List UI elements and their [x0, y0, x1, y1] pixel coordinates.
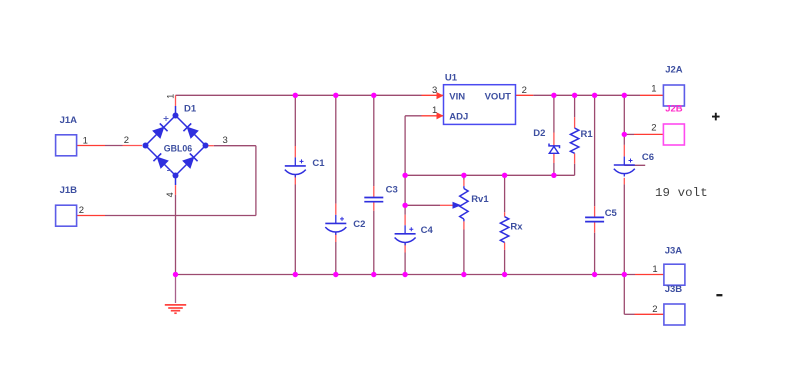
svg-text:3: 3	[223, 135, 228, 146]
svg-text:1: 1	[83, 135, 88, 146]
capacitor C6	[614, 152, 654, 177]
connector J1A	[56, 115, 78, 156]
capacitor C5	[585, 208, 617, 222]
zener diode D2	[533, 128, 559, 153]
regulator U1	[444, 73, 516, 125]
wire net VIN top bus	[176, 94, 444, 96]
wire J3B pin	[624, 275, 664, 315]
svg-text:U1: U1	[445, 73, 458, 84]
connector J2A	[663, 64, 684, 106]
capacitor C2	[325, 215, 365, 235]
svg-text:J1B: J1B	[60, 185, 78, 196]
junction ground bus left	[173, 272, 178, 277]
wire J1A to bridge pin2	[77, 145, 143, 147]
wire R1 branch	[574, 95, 576, 175]
svg-text:R1: R1	[581, 129, 594, 140]
wire bridge pin1 to top bus	[175, 95, 177, 106]
resistor R1	[570, 128, 593, 153]
capacitor C1	[285, 157, 325, 177]
svg-text:D1: D1	[184, 104, 197, 115]
junction VOUT bus R1	[572, 93, 577, 98]
pin number 4 of bridge rotated	[165, 192, 175, 197]
wire U1 ADJ net vertical and C4 branch	[405, 116, 443, 275]
wire D2 branch	[553, 95, 555, 175]
svg-text:1: 1	[166, 94, 176, 99]
junction top bus C2	[333, 93, 338, 98]
svg-text:2: 2	[124, 135, 129, 146]
junction VOUT bus C6	[622, 93, 627, 98]
junction ground bus C5	[592, 272, 597, 277]
svg-text:C5: C5	[605, 208, 618, 219]
wire J2B pin	[624, 133, 663, 135]
wire ground bottom bus	[176, 274, 664, 276]
svg-text:GBL06: GBL06	[164, 144, 192, 155]
connector J3A	[664, 245, 685, 285]
junction ADJ rail left	[402, 173, 407, 178]
svg-text:Rx: Rx	[510, 222, 523, 233]
19 volt annotation	[655, 186, 708, 200]
resistor Rx	[500, 217, 523, 243]
wire C1 branch	[294, 95, 296, 274]
svg-text:4: 4	[165, 192, 175, 197]
svg-text:C4: C4	[421, 225, 434, 236]
wire net VOUT bus	[516, 94, 664, 96]
svg-text:19 volt: 19 volt	[655, 186, 708, 200]
svg-text:C3: C3	[386, 184, 398, 195]
svg-text:J1A: J1A	[60, 115, 78, 126]
svg-text:Rv1: Rv1	[471, 194, 489, 205]
svg-text:2: 2	[651, 123, 656, 134]
pin number 2 of bridge	[124, 135, 129, 146]
junction VOUT bus C5	[592, 93, 597, 98]
junction ADJ rail Rv1	[461, 173, 466, 178]
svg-text:C6: C6	[642, 152, 654, 163]
svg-text:3: 3	[432, 85, 437, 96]
svg-text:ADJ: ADJ	[449, 112, 468, 123]
svg-text:J2B: J2B	[665, 104, 683, 115]
junction ground bus C4	[402, 272, 407, 277]
wire C2 branch	[335, 95, 337, 274]
pin number 1 of J2A	[651, 84, 656, 95]
wire ground stub	[175, 275, 177, 304]
pin number 2 of J3B	[652, 304, 657, 315]
junction ground bus C1	[293, 272, 298, 277]
wire C6 plate stub	[624, 164, 645, 166]
connector J3B	[664, 284, 685, 325]
svg-text:D2: D2	[533, 128, 545, 139]
junction ground bus Rx	[502, 272, 507, 277]
wire bridge pin4 to ground bus	[175, 185, 177, 274]
U1 ADJ input arrow pin 1	[432, 105, 443, 120]
svg-text:VOUT: VOUT	[485, 91, 512, 102]
pin number 1 of J1A	[83, 135, 88, 146]
svg-text:1: 1	[432, 105, 437, 116]
svg-text:VIN: VIN	[449, 91, 465, 102]
junction ground bus Rv1	[461, 272, 466, 277]
svg-text:2: 2	[522, 85, 527, 96]
bridge rectifier D1 GBL06	[143, 104, 209, 186]
svg-text:C2: C2	[353, 219, 365, 230]
wire C5 branch	[594, 95, 596, 274]
minus polarity annotation	[716, 294, 722, 296]
wire C6 J2B branch	[623, 95, 625, 274]
wire J1B to bridge pin3	[77, 146, 256, 216]
pin number 2 of J2B	[651, 123, 656, 134]
wire ADJ horizontal rail	[405, 174, 574, 176]
pin number 1 of bridge rotated	[166, 94, 176, 99]
svg-text:1: 1	[652, 264, 657, 275]
junction ground bus C2	[333, 272, 338, 277]
svg-text:1: 1	[651, 84, 656, 95]
wire C3 branch	[373, 95, 375, 274]
plus polarity annotation	[712, 113, 720, 121]
wire Rv1 branch	[463, 175, 465, 274]
svg-text:J2A: J2A	[665, 64, 683, 75]
wire Rx branch	[504, 175, 506, 274]
capacitor C3	[364, 184, 397, 201]
U1 VOUT pin number 2	[522, 85, 527, 96]
junction ground bus C3	[371, 272, 376, 277]
ground symbol	[165, 305, 186, 313]
junction ADJ rail D2	[551, 173, 556, 178]
svg-text:C1: C1	[312, 158, 325, 169]
connector J2B	[663, 104, 684, 145]
junction top bus C3	[371, 93, 376, 98]
pin number 3 of bridge	[223, 135, 228, 146]
connector J1B	[56, 185, 78, 226]
junction VOUT bus D2	[551, 93, 556, 98]
svg-text:2: 2	[652, 304, 657, 315]
pin number 1 of J3A	[652, 264, 657, 275]
junction J2B net	[622, 132, 627, 137]
junction wiper tap	[402, 203, 407, 208]
U1 VIN input arrow pin 3	[432, 85, 443, 99]
svg-text:2: 2	[79, 205, 84, 216]
potentiometer Rv1	[453, 189, 490, 220]
capacitor C4	[395, 225, 434, 246]
wire Rv1 wiper	[405, 204, 452, 206]
junction top bus C1	[293, 93, 298, 98]
svg-text:J3B: J3B	[665, 284, 683, 295]
svg-text:J3A: J3A	[665, 245, 683, 256]
junction ground bus C6	[622, 272, 627, 277]
junction ADJ rail Rx	[502, 173, 507, 178]
pin number 2 of J1B	[79, 205, 84, 216]
